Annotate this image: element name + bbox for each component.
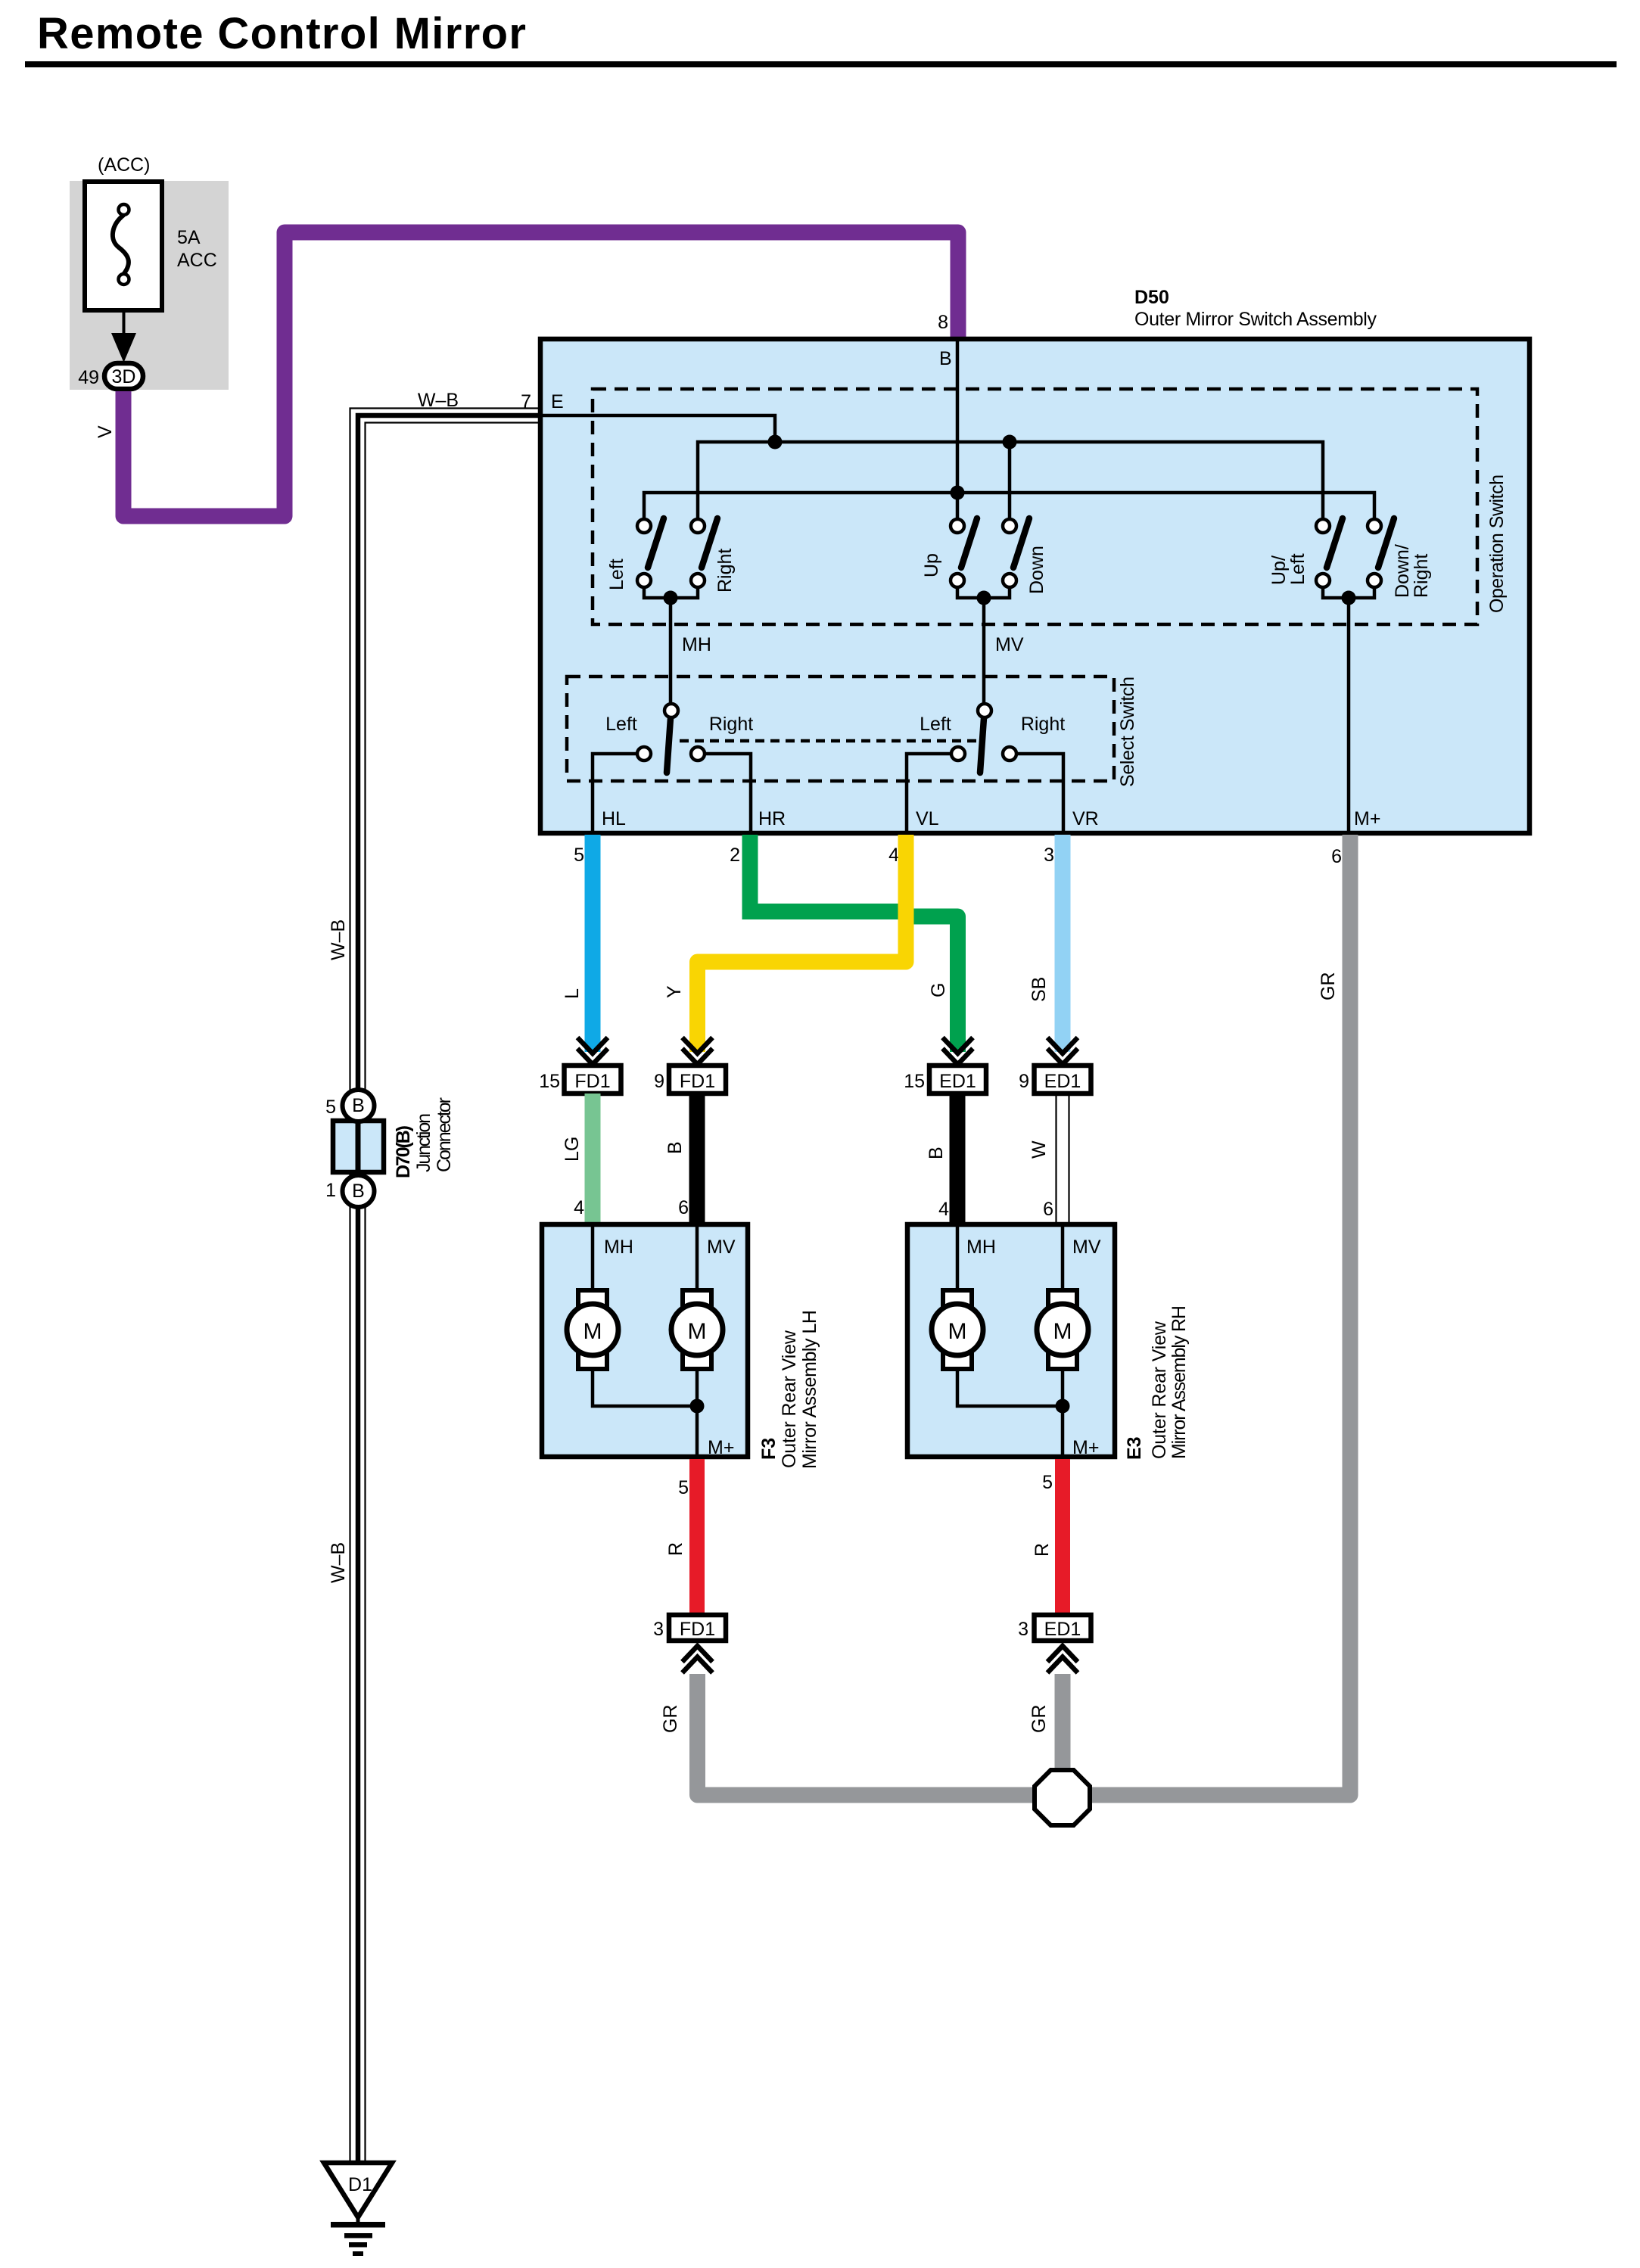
svg-text:Right: Right	[714, 549, 736, 593]
svg-text:B: B	[926, 1146, 947, 1159]
connector FD1 pin 15	[539, 1066, 621, 1094]
svg-text:3D: 3D	[112, 366, 136, 387]
svg-text:Down: Down	[1026, 546, 1047, 594]
svg-text:ED1: ED1	[939, 1071, 976, 1092]
svg-text:M: M	[688, 1319, 707, 1344]
wire motors to M+ (E3)	[957, 1370, 1099, 1458]
svg-text:4: 4	[888, 845, 899, 866]
svg-text:E: E	[551, 391, 564, 412]
wire to Down contact	[1008, 442, 1012, 519]
wire GR (gray) FD1-3 to splice	[698, 1674, 1035, 1795]
svg-text:6: 6	[678, 1197, 689, 1218]
svg-text:Right: Right	[1411, 554, 1432, 598]
motor M (E3 horizontal)	[932, 1290, 983, 1369]
svg-text:Left: Left	[920, 714, 951, 735]
arrow out of FD1-3	[683, 1646, 713, 1673]
svg-text:M: M	[583, 1319, 602, 1344]
svg-text:6: 6	[1331, 846, 1342, 867]
svg-text:Y: Y	[664, 985, 685, 998]
svg-text:MH: MH	[966, 1237, 996, 1258]
wire SB (sky blue) VR to ED1-9	[1055, 835, 1071, 1052]
svg-text:FD1: FD1	[680, 1619, 715, 1640]
wire GR (gray) ED1-3 to splice	[1055, 1674, 1071, 1771]
switch Up-Left/Down-Right (select common)	[1268, 518, 1432, 605]
svg-text:15: 15	[539, 1071, 564, 1092]
select switch MV side	[907, 704, 1065, 833]
svg-text:M+: M+	[708, 1437, 734, 1458]
select switch dashed box	[567, 677, 1114, 781]
svg-text:Mirror Assembly RH: Mirror Assembly RH	[1169, 1305, 1190, 1459]
wire L (blue) HL to FD1-15	[585, 835, 601, 1052]
svg-text:LG: LG	[562, 1137, 583, 1162]
svg-text:Select Switch: Select Switch	[1117, 677, 1138, 787]
arrow into FD1-9	[683, 1038, 713, 1065]
svg-text:VR: VR	[1072, 808, 1099, 829]
svg-text:W: W	[1029, 1140, 1050, 1159]
fuse block background	[70, 181, 229, 390]
svg-text:3: 3	[1018, 1619, 1029, 1640]
svg-text:ACC: ACC	[177, 250, 217, 271]
svg-text:Right: Right	[709, 714, 753, 735]
splice (octagon)	[1035, 1770, 1090, 1825]
svg-text:6: 6	[1043, 1199, 1053, 1220]
arrow into ED1-9	[1047, 1038, 1078, 1065]
svg-text:F3: F3	[758, 1438, 780, 1460]
svg-text:5: 5	[1042, 1472, 1053, 1493]
svg-text:HL: HL	[602, 808, 626, 829]
wire W-B from fuse area to D50 pin 7 and down to ground	[350, 409, 543, 2164]
svg-text:M+: M+	[1354, 808, 1380, 829]
svg-text:B: B	[939, 348, 952, 369]
svg-text:M: M	[1053, 1319, 1072, 1344]
wire bus lower (to Left / Up / Down-Right contacts)	[644, 493, 1374, 519]
motor M (F3 vertical)	[671, 1290, 723, 1369]
connector FD1 pin 9	[654, 1066, 726, 1094]
wire Y (yellow) VL to FD1-9	[698, 835, 907, 1052]
svg-text:R: R	[1032, 1543, 1053, 1557]
svg-text:W–B: W–B	[418, 390, 459, 411]
svg-text:3: 3	[1044, 845, 1054, 866]
connector FD1 pin 3	[653, 1615, 726, 1641]
svg-text:2: 2	[730, 845, 740, 866]
junction node B-bus	[951, 486, 965, 500]
svg-text:7: 7	[521, 391, 531, 412]
connector ED1 pin 15	[904, 1066, 986, 1094]
svg-text:L: L	[562, 988, 583, 999]
svg-text:MH: MH	[682, 634, 711, 655]
svg-text:D50: D50	[1134, 287, 1169, 308]
junction node Down contact bus	[1003, 435, 1017, 450]
arrow into ED1-15	[943, 1038, 973, 1065]
svg-text:(ACC): (ACC)	[98, 154, 150, 176]
svg-text:B: B	[352, 1181, 365, 1202]
svg-text:49: 49	[78, 367, 99, 388]
svg-text:4: 4	[938, 1199, 949, 1220]
svg-text:B: B	[352, 1095, 365, 1116]
svg-text:MH: MH	[604, 1237, 633, 1258]
component F3 Outer Rear View Mirror Assembly LH	[542, 1224, 748, 1457]
svg-text:W–B: W–B	[328, 919, 349, 960]
svg-text:MV: MV	[707, 1237, 736, 1258]
svg-text:Right: Right	[1021, 714, 1065, 735]
wire B FD1 to F3 pin 6	[689, 1094, 705, 1224]
motor M (E3 vertical)	[1037, 1290, 1088, 1369]
wire M+ internal	[1347, 598, 1351, 831]
svg-text:D1: D1	[348, 2174, 372, 2195]
svg-text:Remote Control Mirror: Remote Control Mirror	[37, 9, 526, 58]
wire Y tip	[689, 1047, 705, 1056]
wire SB tip	[1055, 1047, 1071, 1056]
svg-text:VL: VL	[916, 808, 939, 829]
svg-text:B: B	[664, 1141, 686, 1154]
svg-text:E3: E3	[1124, 1436, 1145, 1460]
svg-text:1: 1	[325, 1180, 336, 1201]
svg-text:5A: 5A	[177, 227, 201, 248]
junction node E-bus	[768, 435, 783, 450]
svg-text:3: 3	[653, 1619, 664, 1640]
svg-text:Outer Rear View: Outer Rear View	[779, 1330, 800, 1468]
connector 49 (3D)	[78, 363, 143, 389]
wire GR (gray) M+ pin 6 down to splice	[1091, 835, 1350, 1795]
svg-text:Up: Up	[921, 553, 942, 577]
wire W ED1 to E3 pin 6	[1057, 1094, 1069, 1224]
svg-text:G: G	[928, 983, 949, 997]
wire MV internal	[982, 598, 986, 704]
operation switch dashed box	[593, 389, 1477, 624]
svg-text:GR: GR	[1318, 972, 1339, 1001]
svg-text:Up/: Up/	[1268, 555, 1290, 585]
svg-text:HR: HR	[758, 808, 786, 829]
switch Up/Down (vertical, MV)	[921, 518, 1047, 605]
wire L tip	[585, 1047, 601, 1056]
svg-text:15: 15	[904, 1071, 929, 1092]
svg-text:4: 4	[574, 1197, 584, 1218]
select switch link (dashed)	[680, 739, 976, 743]
svg-text:M+: M+	[1072, 1437, 1099, 1458]
title Remote Control Mirror	[25, 9, 1617, 67]
svg-text:9: 9	[654, 1071, 668, 1092]
wire bus upper (to Right / Down / Up-Left contacts)	[698, 442, 1323, 519]
svg-text:MV: MV	[995, 634, 1024, 655]
svg-text:FD1: FD1	[574, 1071, 610, 1092]
svg-text:9: 9	[1019, 1071, 1033, 1092]
svg-text:5: 5	[574, 845, 584, 866]
svg-text:Left: Left	[1287, 553, 1309, 585]
fuse 5A ACC	[85, 182, 217, 310]
svg-text:Left: Left	[605, 714, 637, 735]
junction connector D70(B)	[325, 1090, 455, 1207]
svg-text:5: 5	[325, 1097, 336, 1118]
svg-text:SB: SB	[1029, 977, 1050, 1002]
wire B internal	[956, 341, 960, 519]
svg-text:M: M	[948, 1319, 967, 1344]
wire MH internal	[669, 598, 673, 704]
svg-text:W–B: W–B	[328, 1542, 349, 1583]
wire E internal	[543, 415, 775, 442]
wire B ED1 to E3 pin 4	[950, 1094, 966, 1224]
connector ED1 pin 3	[1018, 1615, 1091, 1641]
svg-text:Operation Switch: Operation Switch	[1486, 474, 1508, 613]
svg-text:5: 5	[678, 1477, 689, 1498]
wire R (red) F3 M+ pin 5 to FD1-3	[689, 1459, 705, 1615]
component D50 Outer Mirror Switch Assembly box	[540, 339, 1530, 833]
wire G (green) HR to ED1-15	[750, 835, 913, 912]
svg-text:ED1: ED1	[1044, 1071, 1081, 1092]
svg-text:V: V	[95, 425, 116, 438]
wire R (red) E3 M+ pin 5 to ED1-3	[1055, 1459, 1070, 1615]
svg-text:GR: GR	[660, 1705, 681, 1734]
svg-text:Junction: Junction	[413, 1113, 434, 1172]
wire motors to M+ (F3)	[593, 1370, 734, 1458]
motor M (F3 horizontal)	[567, 1290, 618, 1369]
select switch MH side	[593, 704, 753, 833]
arrow from fuse to connector 49	[111, 310, 136, 362]
arrow out of ED1-3	[1047, 1646, 1078, 1673]
svg-text:Down/: Down/	[1392, 544, 1413, 598]
svg-text:R: R	[665, 1542, 686, 1556]
svg-text:D70(B): D70(B)	[393, 1125, 414, 1178]
svg-text:Mirror Assembly LH: Mirror Assembly LH	[799, 1310, 820, 1469]
wire G tip	[950, 1047, 966, 1056]
component E3 Outer Rear View Mirror Assembly RH	[907, 1224, 1115, 1457]
svg-text:GR: GR	[1029, 1705, 1050, 1734]
svg-text:FD1: FD1	[680, 1071, 715, 1092]
connector ED1 pin 9	[1019, 1066, 1091, 1094]
svg-text:Outer Mirror Switch Assembly: Outer Mirror Switch Assembly	[1134, 309, 1377, 330]
svg-text:8: 8	[938, 312, 948, 333]
wire V (violet) from fuse to D50 pin 8	[123, 232, 958, 516]
arrow into FD1-15	[577, 1038, 608, 1065]
svg-text:MV: MV	[1072, 1237, 1101, 1258]
wire LG FD1 to F3 pin 4	[585, 1094, 601, 1224]
svg-text:ED1: ED1	[1044, 1619, 1081, 1640]
svg-text:Left: Left	[606, 558, 627, 590]
ground D1	[324, 2163, 392, 2256]
svg-text:Connector: Connector	[434, 1097, 455, 1172]
switch Left/Right (horizontal, MH)	[606, 518, 736, 605]
svg-text:Outer Rear View: Outer Rear View	[1149, 1321, 1170, 1459]
